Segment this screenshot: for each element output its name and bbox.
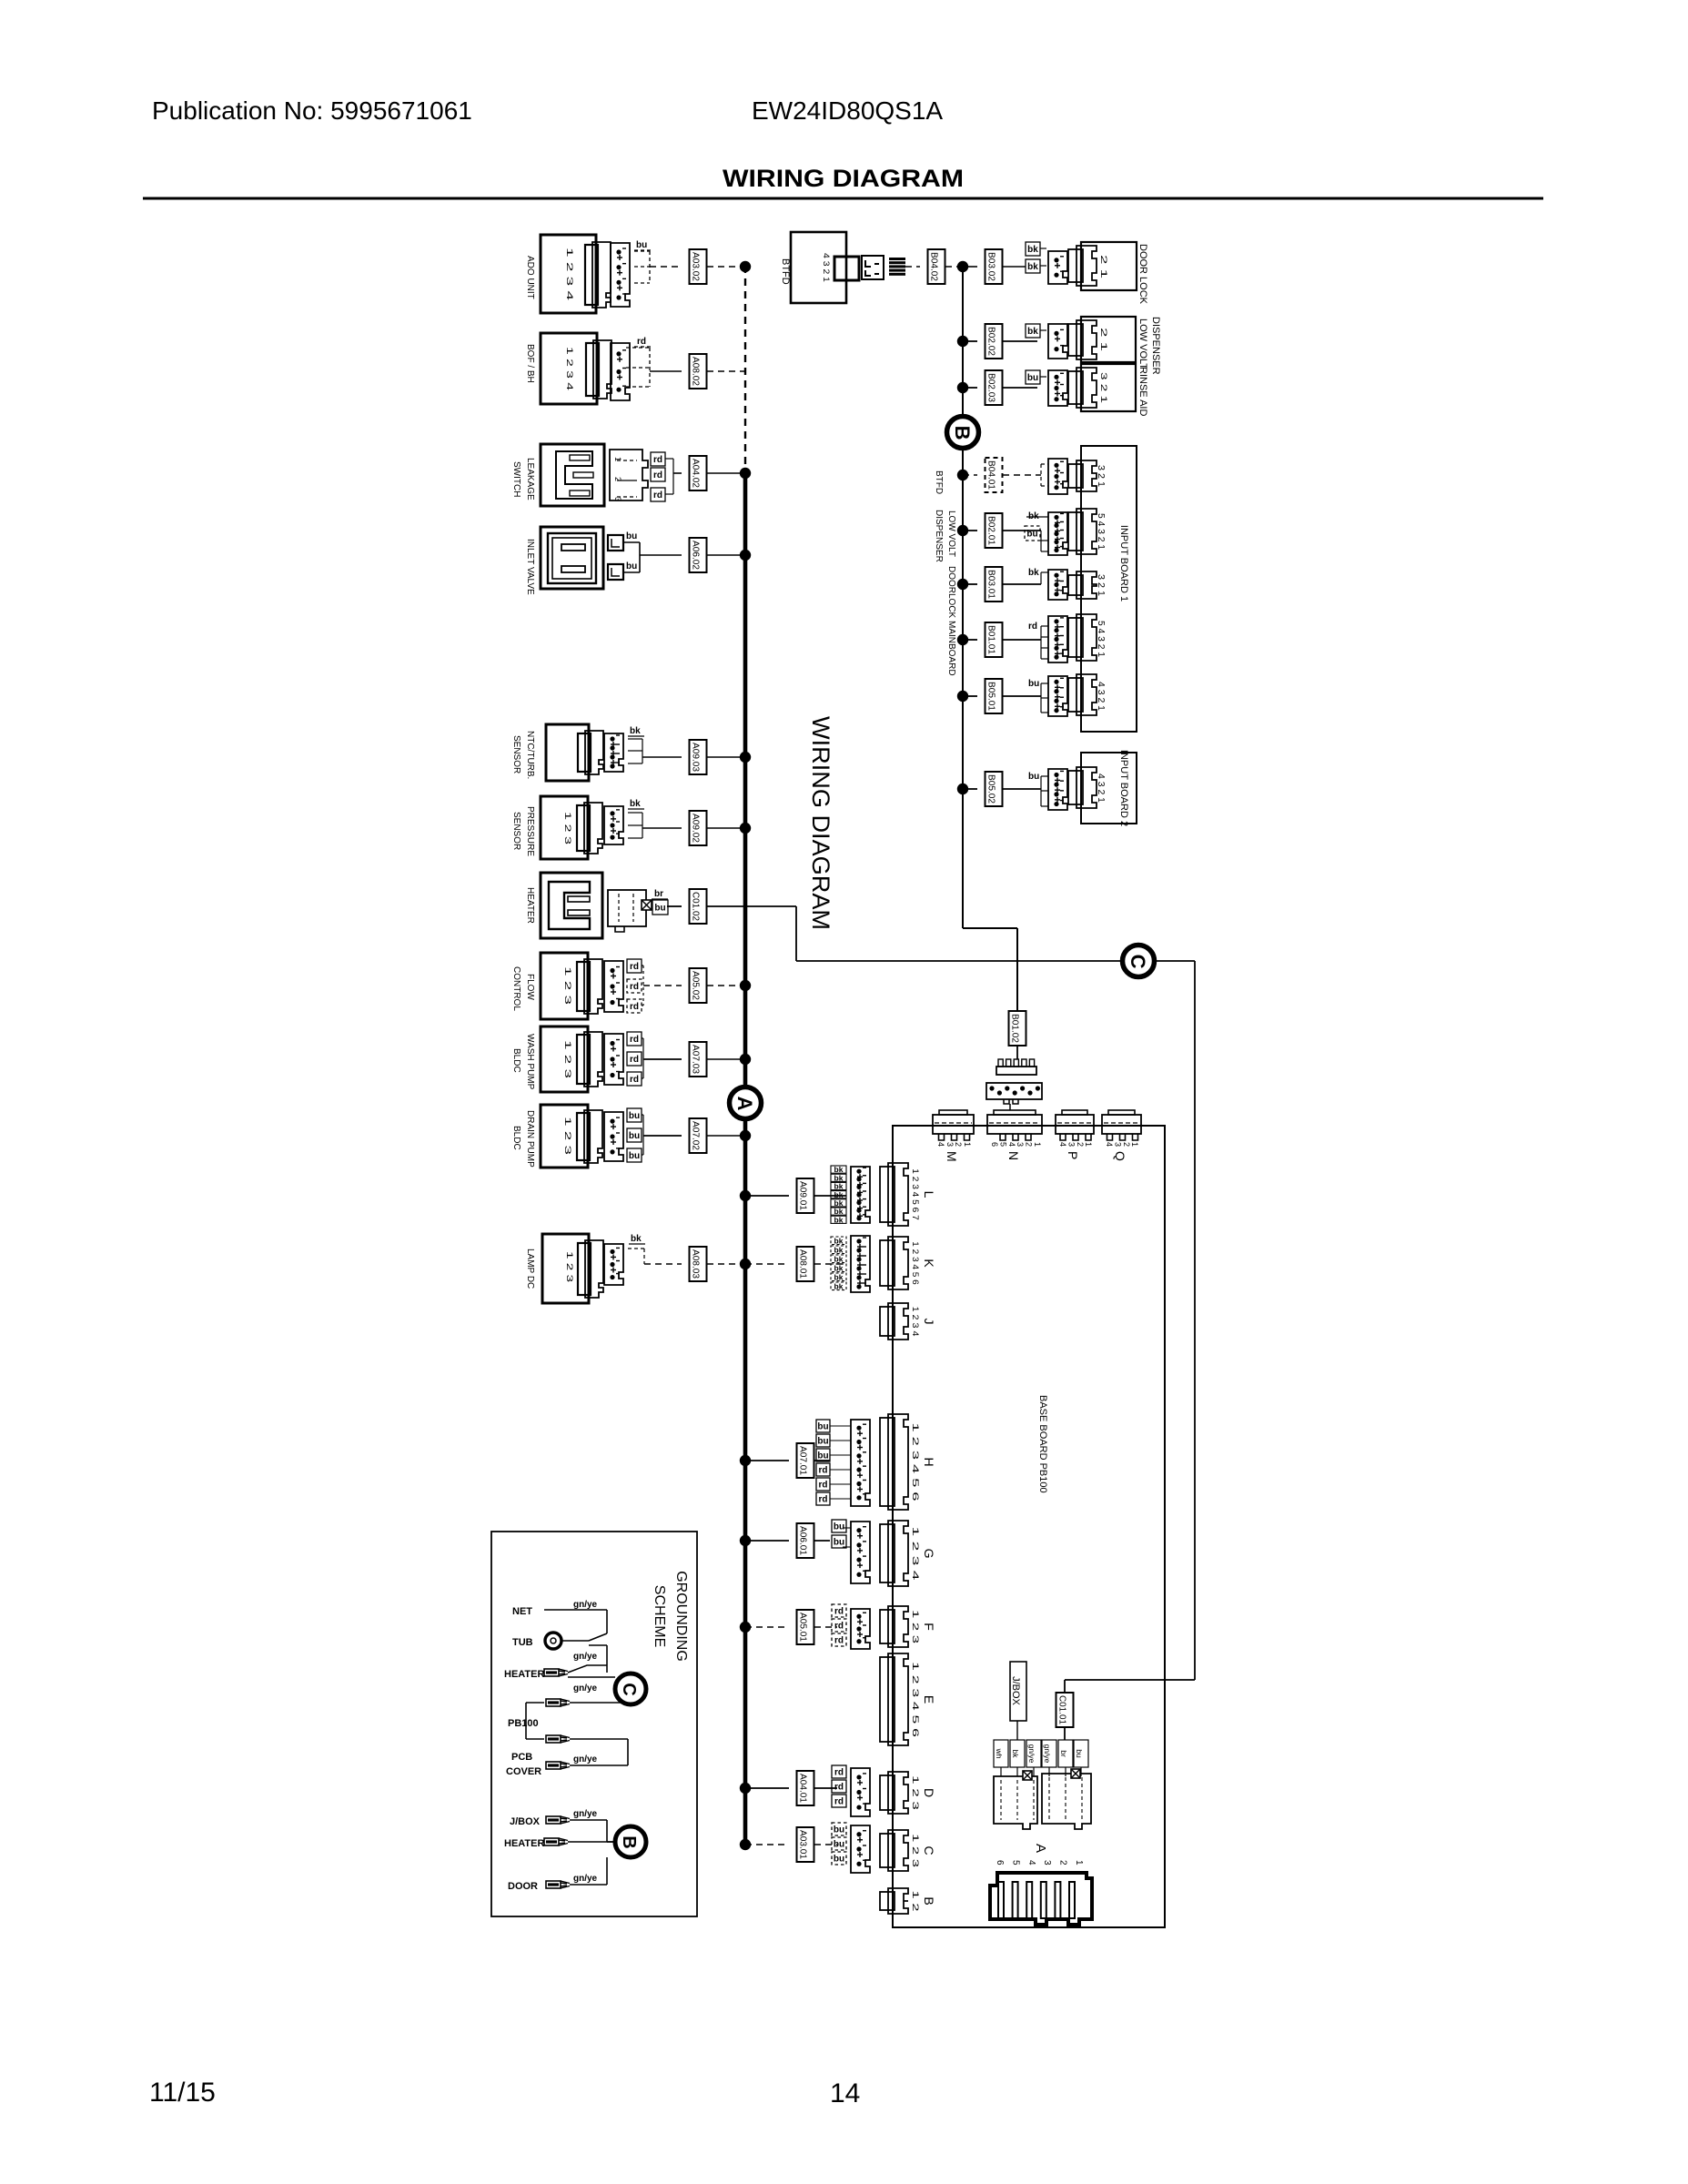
svg-text:B01.02: B01.02 [1010,1014,1020,1043]
junction B05.02 [957,784,968,794]
svg-text:A09.01: A09.01 [798,1181,808,1210]
junction B02.03 [957,382,968,393]
svg-text:bk: bk [834,1272,844,1281]
svg-text:1 2 3: 1 2 3 [911,1834,920,1867]
svg-text:BASE BOARD PB100: BASE BOARD PB100 [1037,1395,1048,1493]
inlet valve connectors [608,535,623,551]
svg-text:B: B [922,1896,936,1905]
svg-text:J/BOX: J/BOX [510,1816,541,1827]
svg-text:bu: bu [1027,373,1038,383]
code box A03.01 dashed [797,1827,814,1862]
svg-text:A: A [733,1097,756,1111]
svg-text:NTC/TURB.: NTC/TURB. [525,731,535,779]
svg-text:6: 6 [990,1142,999,1147]
svg-text:2 1: 2 1 [1099,328,1108,351]
svg-text:BTFD: BTFD [934,470,944,494]
svg-text:gn/ye: gn/ye [1043,1744,1052,1764]
code box B01.01 [986,622,1003,657]
code box A06.01 [797,1523,814,1558]
junction A04.01 [740,1783,751,1794]
bus B vertical [962,267,964,928]
junction A09.02 [740,823,751,834]
code box B02.03 [986,370,1003,405]
svg-text:2 1: 2 1 [1099,255,1108,278]
junction A07.01 [740,1455,751,1466]
board BASE BOARD PB100 [893,1126,1165,1927]
svg-text:bu: bu [834,1538,844,1548]
svg-text:2: 2 [1025,1142,1034,1147]
svg-text:1 2 3 4: 1 2 3 4 [911,1307,920,1337]
code box C01.01 [1056,1693,1074,1727]
svg-text:rd: rd [834,1622,844,1632]
svg-text:J/BOX: J/BOX [1010,1676,1021,1705]
svg-text:NET: NET [512,1606,532,1617]
svg-text:1 2 3 4: 1 2 3 4 [565,248,574,300]
svg-text:C01.02: C01.02 [691,892,701,921]
svg-text:rd: rd [630,1075,639,1085]
svg-text:bu: bu [636,240,647,250]
svg-text:11/15: 11/15 [149,2078,216,2108]
K row dashed (A08.01) [745,1263,789,1265]
svg-text:bu: bu [1026,530,1037,540]
svg-text:rd: rd [653,470,662,480]
pin block above N [986,1083,1042,1099]
svg-text:4: 4 [1007,1142,1016,1147]
leakage connector [610,450,648,500]
code box A07.02 [690,1118,707,1153]
wash pump connector pins [604,1034,623,1085]
component RINSE AID [1081,364,1136,411]
svg-text:14: 14 [830,2078,860,2108]
circle B [947,417,979,449]
dispenser low volt pins [1048,324,1067,359]
connector J [880,1307,895,1336]
wire BOF/BH to A08.02 [626,347,650,349]
svg-text:rd: rd [834,1797,844,1807]
code box A04.01 [797,1771,814,1805]
component BOF/BH [541,333,597,404]
junction B04.01 [957,470,968,480]
connector D [880,1775,895,1810]
svg-text:PCB: PCB [511,1752,532,1763]
BTFD comb connector [889,258,905,260]
code box A06.02 [690,538,707,572]
svg-text:bu: bu [626,531,637,541]
svg-text:rd: rd [819,1466,828,1476]
svg-text:EW24ID80QS1A: EW24ID80QS1A [752,96,943,125]
connector blocks below labels [994,1776,1037,1829]
labels bk bk [1026,242,1040,256]
svg-text:bu: bu [834,1840,844,1850]
wire block to N [1009,1104,1011,1110]
svg-text:bu: bu [817,1451,828,1461]
svg-text:B: B [951,426,974,440]
code box A08.01 [797,1247,814,1281]
svg-text:bk: bk [630,726,641,736]
svg-text:INPUT BOARD 1: INPUT BOARD 1 [1118,525,1129,602]
G pin block [851,1522,870,1583]
svg-text:HEATER: HEATER [525,887,535,924]
svg-text:bu: bu [629,1151,640,1161]
circle B (grounding) [615,1826,646,1857]
junction B02.01 [957,525,968,536]
X terminal [642,900,652,910]
svg-text:A09.03: A09.03 [691,743,701,772]
svg-text:3: 3 [1042,1860,1052,1865]
svg-text:rd: rd [819,1495,828,1505]
svg-text:4: 4 [1105,1142,1114,1147]
svg-text:bk: bk [630,799,641,809]
svg-text:RINSE AID: RINSE AID [1137,367,1148,416]
svg-text:F: F [922,1623,936,1631]
svg-text:bu: bu [1028,679,1039,689]
svg-text:A08.03: A08.03 [691,1249,701,1279]
circle C [1123,945,1155,977]
svg-text:1 2 3: 1 2 3 [911,1610,920,1643]
svg-text:A06.01: A06.01 [798,1526,808,1555]
svg-text:rd: rd [834,1636,844,1646]
code box A03.02 [690,249,707,284]
svg-text:B02.02: B02.02 [986,327,996,356]
svg-text:1 2 3 4: 1 2 3 4 [565,347,574,390]
svg-text:2: 2 [1076,1142,1085,1147]
junction A08.03 [740,1259,751,1269]
svg-text:5: 5 [1010,1860,1020,1865]
junction A06.02 [740,550,751,561]
junction B05.01 [957,691,968,702]
svg-text:bk: bk [834,1236,844,1245]
svg-text:bk: bk [631,1234,642,1244]
code box B05.01 [986,679,1003,713]
svg-text:4 3 2 1: 4 3 2 1 [1096,682,1106,711]
svg-text:br: br [654,889,663,899]
svg-text:A09.02: A09.02 [691,814,701,843]
board INPUT BOARD 1 [1081,446,1137,732]
BTFD connector [862,256,884,279]
svg-text:L: L [922,1191,936,1198]
component DOOR LOCK [1081,242,1137,290]
svg-text:A03.01: A03.01 [798,1830,808,1859]
svg-text:rd: rd [819,1481,828,1491]
code box B02.02 [986,324,1003,359]
svg-text:3 2 1: 3 2 1 [1096,574,1106,596]
svg-text:3: 3 [1113,1142,1122,1147]
svg-text:A04.01: A04.01 [798,1774,808,1803]
svg-text:gn/ye: gn/ye [573,1874,598,1884]
svg-text:1 2 3: 1 2 3 [563,812,572,844]
J/BOX label box [1010,1662,1026,1721]
labels bu bu bu rd rd rd [816,1420,830,1432]
code box A09.02 [690,811,707,845]
svg-text:SCHEME: SCHEME [652,1585,667,1647]
svg-text:rd: rd [653,490,662,500]
svg-text:DOOR LOCK: DOOR LOCK [1137,244,1148,305]
svg-text:COVER: COVER [506,1766,541,1777]
svg-text:FLOW: FLOW [525,974,535,1000]
svg-text:C: C [619,1683,639,1695]
code box B04.01 dashed [986,458,1003,492]
svg-text:1 2 3: 1 2 3 [911,1775,920,1810]
svg-text:B05.02: B05.02 [986,774,996,804]
component HEATER [541,873,602,938]
svg-text:bu: bu [817,1422,828,1432]
svg-text:WASH PUMP: WASH PUMP [525,1034,535,1090]
wire BTFD to B04.02 dashed [905,266,920,268]
junction A06.01 [740,1535,751,1546]
svg-text:BTFD: BTFD [780,258,791,285]
NTC connector pins [604,733,623,772]
svg-text:bu: bu [629,1111,640,1121]
code box A07.01 [797,1443,814,1478]
connector M [939,1110,967,1115]
svg-text:A07.02: A07.02 [691,1121,701,1150]
component FLOW CONTROL [541,953,588,1019]
D pin block [851,1768,870,1816]
svg-text:2: 2 [1122,1142,1131,1147]
component LAMP DC [542,1234,589,1303]
connector F [880,1610,895,1643]
svg-text:gn/ye: gn/ye [573,1652,598,1662]
svg-text:gn/ye: gn/ye [573,1600,598,1610]
connector E [880,1657,895,1742]
svg-text:TUB: TUB [512,1637,533,1648]
junction A05.02 [740,980,751,991]
svg-text:K: K [922,1259,936,1268]
code box A07.03 [690,1042,707,1077]
svg-text:D: D [922,1788,936,1797]
svg-text:1: 1 [1033,1142,1042,1147]
svg-text:1 2: 1 2 [911,1891,920,1912]
svg-text:bk: bk [834,1215,844,1224]
component DRAIN PUMP BLDC [541,1105,588,1168]
lamp connector pins [604,1244,623,1285]
svg-text:3: 3 [1066,1142,1076,1147]
heater connector [608,890,646,926]
svg-text:bu: bu [654,904,665,914]
connector C [880,1834,895,1867]
L pin block [851,1167,870,1223]
svg-text:A07.01: A07.01 [798,1446,808,1475]
code box B02.01 [986,513,1003,548]
svg-text:br: br [1059,1750,1068,1757]
svg-text:A03.02: A03.02 [691,252,701,281]
svg-text:B01.01: B01.01 [986,625,996,654]
component DISPENSER LOW VOLT [1081,317,1136,362]
svg-text:C: C [1127,955,1149,969]
labels rd rd rd [651,452,665,466]
svg-text:1 2 3: 1 2 3 [563,1117,572,1155]
svg-text:gn/ye: gn/ye [573,1809,598,1819]
svg-text:N: N [1006,1151,1021,1160]
svg-text:SENSOR: SENSOR [511,812,521,850]
wire colour labels wh bk gn/ye gn/ye br bu [994,1740,1008,1767]
svg-text:3: 3 [1016,1142,1025,1147]
svg-text:3 2 1: 3 2 1 [1096,465,1106,487]
svg-text:bk: bk [1028,568,1039,578]
connector Q [1108,1110,1135,1115]
wire HEATER to C01.02 and to C [667,905,682,907]
svg-text:bu: bu [1075,1749,1084,1758]
svg-text:1 2 3 4: 1 2 3 4 [911,1526,920,1580]
svg-text:5 4 3 2 1: 5 4 3 2 1 [1096,621,1106,657]
junction A09.01 [740,1190,751,1201]
wire DRAIN PUMP to A07.02 [642,1114,643,1116]
connector G [880,1524,895,1582]
svg-text:A08.02: A08.02 [691,357,701,386]
svg-text:C: C [922,1845,936,1855]
svg-text:J: J [922,1319,936,1325]
rinse aid pins [1048,370,1067,406]
junction B03.01 [957,579,968,590]
F pin block [851,1609,870,1649]
code box A08.03 [690,1247,707,1281]
code box B03.01 [986,567,1003,602]
K pin block [851,1236,870,1292]
grounding scheme box [491,1532,697,1916]
svg-text:bk: bk [834,1281,844,1290]
connector K [880,1240,895,1286]
wire INLET VALVE to A06.02 [640,554,682,556]
svg-text:rd: rd [637,337,646,347]
junction B01.01 [957,634,968,645]
svg-text:1 2 3 4 5 6 7: 1 2 3 4 5 6 7 [911,1168,920,1220]
svg-text:GROUNDING: GROUNDING [673,1571,689,1662]
svg-text:rd: rd [653,455,662,465]
svg-text:1 2 3: 1 2 3 [563,966,572,1005]
svg-text:bu: bu [817,1437,828,1447]
svg-text:3 2 1: 3 2 1 [1099,372,1108,403]
code box A09.01 [797,1178,814,1213]
connector pins BOF/BH [611,343,630,400]
svg-text:WIRING DIAGRAM: WIRING DIAGRAM [723,165,964,192]
junction A03.02 [740,261,751,272]
svg-text:3: 3 [945,1142,955,1147]
svg-text:2: 2 [954,1142,963,1147]
component WASH PUMP BLDC [541,1026,588,1092]
board INPUT BOARD 2 [1081,753,1137,824]
wire LEAKAGE to A04.02 [665,458,673,460]
svg-text:bu: bu [1028,772,1039,782]
svg-text:LOW VOLT: LOW VOLT [946,511,956,557]
svg-text:1: 1 [1130,1142,1139,1147]
code box A05.02 [690,968,707,1003]
svg-text:LEAKAGE: LEAKAGE [525,458,535,500]
junction A07.02 [740,1130,751,1141]
code box B05.02 [986,772,1003,806]
svg-text:HEATER: HEATER [504,1669,544,1680]
svg-text:gn/ye: gn/ye [573,1754,598,1764]
svg-text:A: A [1033,1844,1048,1853]
connector L [880,1167,895,1222]
svg-text:rd: rd [630,962,639,972]
svg-text:rd: rd [834,1607,844,1617]
svg-text:1 2 3 4 5 6: 1 2 3 4 5 6 [911,1422,920,1501]
connector N [994,1110,1036,1115]
pressure connector pins [604,806,623,844]
svg-text:A05.01: A05.01 [798,1613,808,1642]
svg-text:HEATER: HEATER [504,1838,544,1849]
svg-text:DISPENSER: DISPENSER [1150,317,1161,375]
svg-text:PB100: PB100 [508,1718,539,1729]
svg-text:DISPENSER: DISPENSER [934,510,944,562]
svg-text:5 4 3 2 1: 5 4 3 2 1 [1096,513,1106,550]
connector B [880,1892,895,1910]
svg-text:ADO UNIT: ADO UNIT [525,256,535,299]
svg-text:1 2 3 4 5 6: 1 2 3 4 5 6 [911,1241,920,1285]
svg-text:rd: rd [630,1035,639,1045]
svg-text:B03.01: B03.01 [986,570,996,599]
svg-text:DOORLOCK MAINBOARD: DOORLOCK MAINBOARD [946,566,956,676]
drain pump connector pins [604,1112,623,1161]
svg-text:1 2 3: 1 2 3 [563,1040,572,1078]
svg-text:gn/ye: gn/ye [573,1683,598,1694]
big connector A outline [990,1873,1092,1925]
svg-text:rd: rd [630,982,639,992]
circle C (grounding) [615,1673,646,1704]
svg-text:bk: bk [834,1263,844,1272]
labels bk x7 [831,1166,846,1173]
svg-text:bk: bk [1027,245,1038,255]
junction A09.03 [740,752,751,763]
svg-text:CONTROL: CONTROL [511,966,521,1011]
svg-text:A07.03: A07.03 [691,1045,701,1074]
svg-text:6: 6 [995,1860,1005,1865]
svg-text:4: 4 [1026,1860,1036,1865]
wire NTC to A09.03 [628,738,642,740]
svg-text:PRESSURE: PRESSURE [525,806,535,856]
component INLET VALVE [541,527,603,589]
code box B03.02 [986,249,1003,284]
svg-text:C01.01: C01.01 [1057,1695,1067,1724]
svg-text:4: 4 [1058,1142,1067,1147]
junction A04.02 [740,468,751,479]
title rule [143,197,1543,200]
svg-text:rd: rd [630,1055,639,1065]
svg-text:5: 5 [998,1142,1007,1147]
component PRESSURE SENSOR [541,796,588,859]
leakage switch internals [556,451,592,499]
svg-text:rd: rd [1028,622,1037,632]
svg-text:SWITCH: SWITCH [511,461,521,497]
svg-text:1: 1 [1084,1142,1093,1147]
svg-text:B05.01: B05.01 [986,682,996,711]
svg-text:bk: bk [1027,327,1038,337]
code box A04.02 [690,456,707,490]
wire FLOW CONTROL to A05.02 dashed [642,965,643,966]
wire WASH PUMP to A07.03 [642,1037,643,1039]
svg-text:bk: bk [834,1254,844,1263]
junction A07.03 [740,1054,751,1065]
svg-text:BLDC: BLDC [511,1048,521,1073]
connector P [1062,1110,1087,1115]
wire LAMP DC to A08.03 dashed [644,1263,682,1265]
svg-text:4 3 2 1: 4 3 2 1 [1096,773,1106,803]
code box B01.02 [1009,1011,1026,1046]
svg-text:A06.02: A06.02 [691,541,701,570]
svg-text:bk: bk [1027,262,1038,272]
bus A dashed upper segment [744,266,746,473]
wire PRESSURE to A09.02 [628,812,642,814]
svg-text:bu: bu [834,1855,844,1865]
flow control connector pins [604,961,623,1012]
code box B04.02 [928,249,945,284]
svg-text:1 2 3: 1 2 3 [565,1251,574,1282]
svg-text:wh: wh [995,1748,1004,1759]
svg-text:H: H [922,1457,936,1466]
connector pins ADO UNIT [611,243,630,307]
svg-text:4: 4 [936,1142,945,1147]
bus A main vertical [743,473,748,1845]
